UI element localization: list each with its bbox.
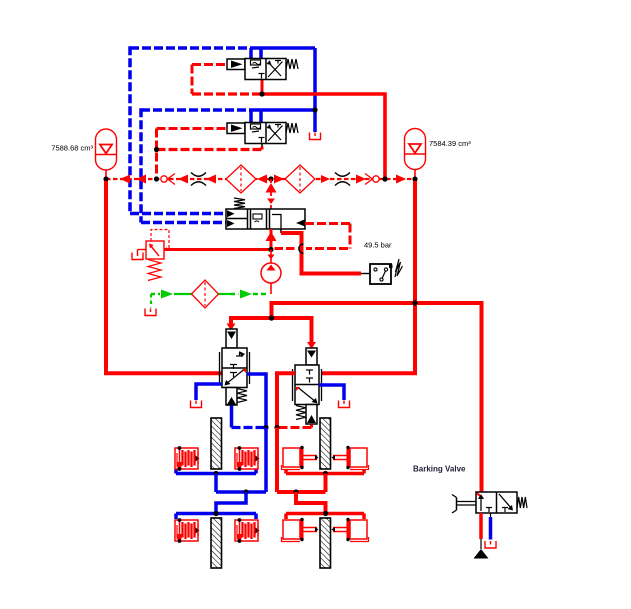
node: blue link junction	[243, 489, 248, 494]
wire: blue drop to spring brakes	[264, 428, 268, 493]
wire: U2 output line y=149.5	[157, 144, 263, 150]
wire: brake valves supply y=318	[231, 318, 312, 343]
wire: drop into left brake valve	[227, 324, 236, 331]
wire: blue stubs into valve U2	[251, 110, 261, 123]
spring brake cylinder C2	[235, 446, 260, 471]
wire: U4 right port blue	[247, 374, 266, 428]
wire: U5 bottom port red	[277, 425, 312, 428]
node: accumulator AC2 junction	[412, 176, 417, 181]
wire: pump discharge riser x=271	[266, 179, 277, 209]
wire: charge line between accumulators y=179	[106, 178, 415, 180]
wire: red riser x=385 down to charge line	[383, 92, 387, 179]
reservoir arrow (black triangle)	[474, 549, 489, 559]
orifice O1	[191, 173, 206, 186]
wire: red link front	[277, 474, 326, 493]
wire: U3 pilot feedback loop (dashed)	[271, 224, 350, 249]
line hop over tank line	[299, 244, 304, 253]
spring brake cylinder C3	[175, 518, 200, 543]
node: header drop junction	[269, 315, 274, 320]
wire: U1 pilot red dashed loop	[192, 65, 227, 95]
tank T1 at drain header	[310, 133, 321, 140]
check valve CV1	[161, 174, 175, 185]
node: junction drain header / U2 line	[312, 107, 317, 112]
svg-text:49.5 bar: 49.5 bar	[364, 241, 392, 250]
node: front manifold tee	[213, 471, 218, 476]
node: red junction y=427.5	[274, 425, 279, 430]
spring brake cylinder C1	[175, 446, 200, 471]
valve U1 (pressure reducing, charges right accumulator)	[227, 59, 298, 80]
flow arrows on charge line (right)	[274, 175, 406, 184]
tank T4	[339, 401, 350, 408]
suction filter F3	[192, 280, 219, 308]
wire: red riser/drop x=277	[275, 428, 279, 493]
node: pump/relief junction	[268, 247, 273, 252]
wire: U4 bottom port blue	[232, 406, 267, 428]
wire: U5 supply elbow	[277, 373, 295, 427]
valve U4 (spring brake control, left)	[220, 329, 250, 405]
wire: red zigzag to rear manifold	[296, 492, 326, 514]
wire: U4 left port blue to tank	[196, 384, 222, 400]
relief valve RV1	[132, 230, 169, 281]
brake disc D2 (rear left)	[211, 518, 222, 568]
wire: U5 right port blue to tank	[319, 385, 344, 400]
wire: suction line (green) with filter F3	[151, 290, 268, 308]
pressure switch PS1 49.5 bar	[361, 241, 403, 285]
service brake cylinder C8	[332, 518, 369, 542]
node: accumulator AC1 junction	[103, 176, 108, 181]
wire: blue zigzag to rear manifold	[216, 492, 246, 514]
node: red front manifold tee	[323, 471, 328, 476]
valve U5 (service brake control, right)	[293, 348, 322, 424]
service brake cylinder C5	[282, 446, 319, 470]
wire: blue pilot line from reducing valve U2 drain, y=110	[141, 108, 317, 112]
wire: barking valve blue port	[490, 513, 492, 540]
node: rear manifold tee	[213, 511, 218, 516]
wire: blue link front->rear	[216, 474, 266, 493]
node: red link junction	[293, 489, 298, 494]
valve U2 (pressure reducing, charges left accumulator)	[227, 123, 298, 144]
wire: blue rear manifold	[176, 514, 256, 520]
op valve U3 body (proportional pressure control)	[226, 198, 305, 229]
wire: U3 supply from pump (up arrow)	[266, 229, 277, 250]
wire: red front manifold	[286, 469, 364, 474]
service brake cylinder C7	[282, 518, 319, 542]
svg-text:7588.68 cm³: 7588.68 cm³	[51, 144, 93, 153]
accumulator AC2 7584.39 cm3	[405, 129, 472, 179]
wire: blue pilot riser x=130 to main valve port a	[130, 46, 226, 213]
brake disc D4 (rear right)	[320, 518, 331, 568]
wire: drop into right brake valve	[307, 342, 316, 349]
node: blue junction y=427.5	[263, 425, 268, 430]
tank T3	[191, 401, 202, 408]
check valve CV2	[365, 174, 379, 185]
wire: red rear manifold	[286, 514, 364, 520]
node: pump feed junction	[268, 176, 273, 181]
wire: left accumulator supply to left brake valve	[106, 181, 222, 373]
pump P1	[261, 250, 281, 295]
wire: blue pilot line from reducing valve U1 drain, y=48	[130, 46, 315, 50]
brake disc D1 (front left)	[211, 418, 222, 469]
wire: U3 tank port to pressure switch	[281, 229, 361, 274]
spring brake cylinder C4	[235, 518, 260, 543]
node: riser x385 junction	[382, 176, 387, 181]
wire: U1 output line to right accumulator riser y=94	[192, 80, 385, 95]
brake disc D3 (front right)	[320, 418, 331, 469]
filter F2	[285, 165, 315, 193]
node: U1 output junction	[259, 91, 264, 96]
svg-text:Barking Valve: Barking Valve	[413, 465, 466, 474]
wire: U2 pilot red dashed loop	[157, 129, 229, 180]
service brake cylinder C6	[332, 446, 369, 470]
wire: blue stubs into valve U1	[251, 48, 261, 59]
tank T5	[485, 541, 496, 548]
wire: relief valve to pump node	[164, 248, 271, 251]
accumulator AC1 7588.68 cm3	[51, 129, 116, 179]
wire: right accumulator riser down	[322, 181, 416, 373]
svg-text:7584.39 cm³: 7584.39 cm³	[429, 139, 471, 148]
wire: barking valve outlet to reservoir (red)	[479, 513, 483, 549]
flow arrows on charge line (left)	[120, 175, 267, 184]
wire: blue front manifold	[176, 469, 256, 474]
node: U2 pilot/output junction	[154, 147, 159, 152]
wire: blue drain header x=315 to tank	[313, 48, 317, 132]
filter F1	[226, 165, 256, 193]
orifice O2	[335, 173, 350, 186]
wire: blue pilot riser x=141 to main valve port b	[141, 108, 226, 222]
tank T2 (suction)	[145, 309, 156, 316]
node: barking valve branch	[412, 300, 417, 305]
node: U2 line junction	[154, 176, 159, 181]
wire: supply header y=303	[272, 303, 482, 492]
node: red rear manifold tee	[323, 511, 328, 516]
valve U6 Barking Valve (3/2 lever valve)	[452, 492, 527, 513]
label Barking Valve	[413, 465, 466, 474]
